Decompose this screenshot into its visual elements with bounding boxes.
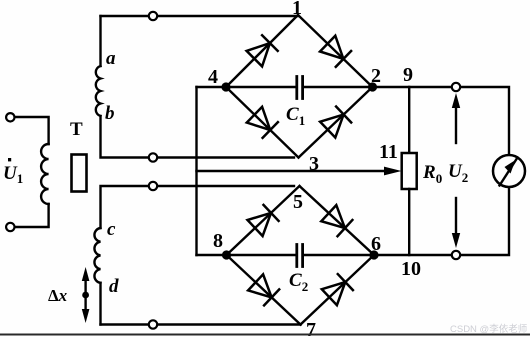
wire: bridge1 edge node3 to node2 bbox=[299, 87, 373, 158]
terminal: output bottom (10) bbox=[452, 251, 460, 259]
wire: bridge2 edge node5 to node6 bbox=[300, 186, 375, 255]
svg-text:a: a bbox=[106, 48, 116, 69]
inductor: secondary winding c-d bbox=[94, 228, 100, 283]
svg-text:b: b bbox=[105, 103, 115, 124]
U1 dot accent bbox=[8, 158, 11, 161]
terminal: primary top bbox=[6, 113, 14, 121]
wire: resistor R0 to node10 bbox=[408, 189, 410, 255]
wire: secondary c top lead bbox=[101, 186, 295, 228]
wire: node4 to capacitor C1 left plate bbox=[226, 86, 295, 88]
svg-text:CSDN @李依老师: CSDN @李依老师 bbox=[450, 323, 527, 335]
svg-text:11: 11 bbox=[379, 141, 398, 163]
wire: node4 to left rail bbox=[197, 86, 227, 88]
node junction dot 4 bbox=[221, 82, 230, 91]
svg-text:1: 1 bbox=[292, 0, 302, 19]
U2 voltage arrow down bbox=[452, 198, 460, 248]
wire: node9 drop to resistor R0 bbox=[408, 87, 410, 153]
wire: node8 to capacitor C2 left plate bbox=[227, 254, 295, 256]
diode D1 (node4 to node1) bbox=[247, 35, 278, 66]
terminal: winding c end bbox=[149, 182, 157, 190]
wire: bridge2 edge node8 to node5 bbox=[227, 186, 300, 255]
diode D3 (node4 to node3) bbox=[247, 107, 278, 138]
resistor R0 (potentiometer body) bbox=[402, 153, 417, 189]
terminal: primary bottom bbox=[6, 223, 14, 231]
svg-text:5: 5 bbox=[293, 191, 303, 213]
svg-text:7: 7 bbox=[306, 319, 316, 340]
node junction dot 6 bbox=[369, 250, 378, 259]
svg-text:6: 6 bbox=[371, 233, 381, 255]
wire: bottom rail d-end to node 7 bbox=[101, 323, 301, 325]
svg-text:8: 8 bbox=[213, 230, 223, 252]
svg-text:4: 4 bbox=[208, 66, 218, 88]
terminal: winding b end bbox=[149, 153, 157, 161]
diode D4 (node3 to node2) bbox=[320, 107, 351, 138]
meter needle bbox=[500, 158, 518, 186]
svg-text:c: c bbox=[107, 219, 116, 240]
diode D5 (node8 to node5) bbox=[248, 205, 279, 236]
transformer core (movable) bbox=[72, 155, 87, 192]
terminal: output top (9) bbox=[452, 83, 460, 91]
diode D2 (node1 to node2) bbox=[320, 36, 351, 67]
node junction dot 8 bbox=[222, 250, 231, 259]
diode D8 (node7 to node6) bbox=[322, 274, 353, 305]
wire: node8 to left rail bbox=[197, 254, 227, 256]
inductor: transformer primary winding bbox=[41, 144, 49, 204]
wire: bridge1 edge node1 to node2 bbox=[298, 15, 373, 87]
wire: bridge2 edge node8 to node7 bbox=[227, 255, 301, 325]
node junction dot 2 bbox=[368, 82, 377, 91]
svg-text:9: 9 bbox=[403, 64, 413, 86]
terminal: winding a end bbox=[149, 12, 157, 20]
wire: bridge1 edge node4 to node3 bbox=[226, 87, 299, 158]
U2 voltage arrow up bbox=[452, 93, 460, 143]
wire: capacitor C2 right plate to node6 bbox=[305, 254, 374, 256]
displacement arrow dx (double-headed) bbox=[82, 267, 90, 323]
wire: node2 to terminal 9 rail bbox=[373, 87, 510, 155]
wire: secondary d bottom lead to bottom rail bbox=[99, 283, 101, 325]
svg-text:Δx: Δx bbox=[48, 286, 68, 305]
wire: bridge1 edge node4 to node1 bbox=[226, 15, 298, 87]
svg-text:T: T bbox=[70, 119, 83, 140]
wire: primary bottom lead bbox=[10, 204, 49, 227]
wiper arrowhead at node 11 bbox=[384, 167, 402, 176]
svg-text:3: 3 bbox=[309, 153, 319, 175]
inductor: secondary winding a-b bbox=[96, 66, 101, 116]
diode D7 (node8 to node7) bbox=[248, 274, 279, 305]
diode D6 (node5 to node6) bbox=[321, 205, 352, 236]
wire: capacitor C1 right plate to node2 bbox=[305, 86, 373, 88]
meter M (galvanometer) bbox=[493, 155, 525, 187]
wire: primary top lead bbox=[10, 117, 49, 144]
capacitor C2 bbox=[297, 245, 303, 267]
terminal: winding d end bbox=[149, 320, 157, 328]
svg-text:10: 10 bbox=[401, 258, 421, 280]
svg-text:d: d bbox=[109, 276, 119, 297]
svg-text:2: 2 bbox=[371, 65, 381, 87]
wire: top rail a-end to node 1 bbox=[101, 15, 299, 17]
wire: node6 to terminal 10 rail bbox=[374, 187, 509, 255]
capacitor C1 bbox=[297, 77, 303, 99]
wire: secondary a top lead to top rail bbox=[99, 16, 101, 66]
wire: secondary b bottom lead bbox=[101, 116, 295, 158]
wire: left rail joining node4 and node8 bbox=[195, 87, 197, 255]
scan artifact: bottom horizontal rule bbox=[0, 334, 530, 336]
wire: bridge2 edge node7 to node6 bbox=[301, 255, 375, 325]
wire: wiper line from left rail to node 11 bbox=[197, 170, 387, 172]
